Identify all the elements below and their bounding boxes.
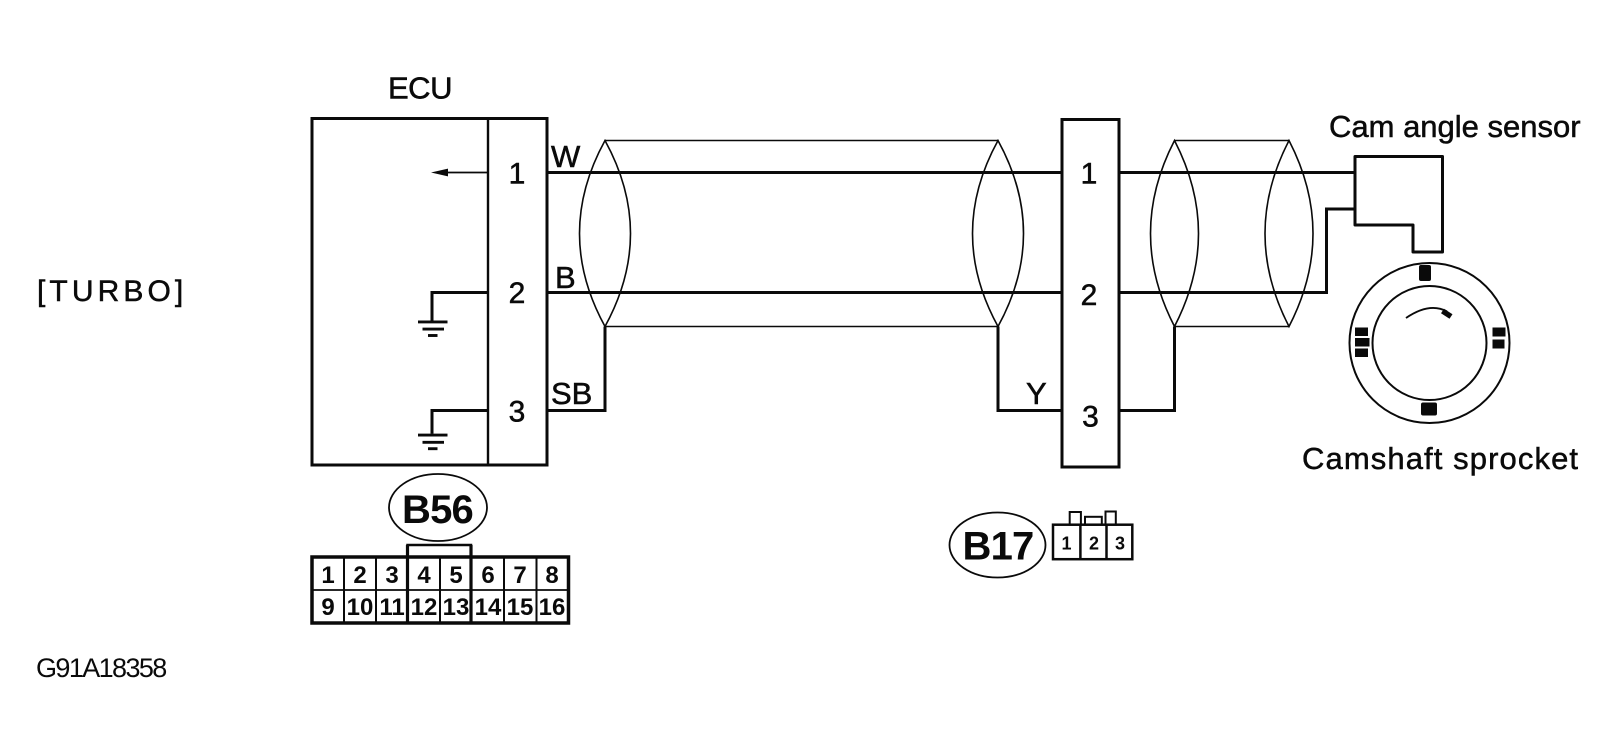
svg-text:14: 14 xyxy=(475,594,502,621)
cam angle sensor body xyxy=(1355,157,1443,253)
svg-text:1: 1 xyxy=(1081,158,1098,191)
ground wire pin 2 xyxy=(432,293,488,321)
column dividers xyxy=(344,557,537,623)
wire W: ECU pin1 to connector xyxy=(547,171,1062,174)
svg-text:1: 1 xyxy=(1061,534,1071,554)
B56 pin numbers row 1 xyxy=(321,562,558,589)
ECU connector divider xyxy=(487,119,489,466)
svg-text:13: 13 xyxy=(443,594,470,621)
B17 cell numbers xyxy=(1061,534,1125,554)
svg-text:9: 9 xyxy=(321,594,334,621)
shield cylinder 2 top line xyxy=(1175,140,1290,142)
svg-text:3: 3 xyxy=(385,562,398,589)
wire pin3 to shield 2 xyxy=(1119,327,1175,411)
sprocket marks right xyxy=(1493,328,1506,337)
B17 connector tabs xyxy=(1070,512,1081,525)
ground symbol pin 3 xyxy=(418,435,448,449)
connector B17 inline box xyxy=(1062,120,1119,468)
svg-text:1: 1 xyxy=(321,562,334,589)
connector label B17 ellipse xyxy=(950,513,1046,578)
wire pin1 to sensor xyxy=(1119,171,1355,174)
shield cable 1 bottom line xyxy=(605,326,998,328)
svg-text:8: 8 xyxy=(545,562,558,589)
sprocket marks left xyxy=(1355,328,1368,337)
ground symbol pin 2 xyxy=(418,322,448,336)
svg-text:B: B xyxy=(555,260,576,295)
shield cylinder 2 bottom line xyxy=(1175,326,1290,328)
B56 pin numbers row 2 xyxy=(321,594,565,621)
row divider xyxy=(312,589,569,591)
svg-text:B17: B17 xyxy=(963,525,1034,569)
B56 connector tab xyxy=(408,545,472,557)
svg-text:2: 2 xyxy=(353,562,366,589)
svg-text:3: 3 xyxy=(1115,534,1125,554)
ECU box xyxy=(312,119,547,466)
shield cable 1 top line xyxy=(605,140,998,142)
wire Y: shield to connector B17 xyxy=(998,327,1062,411)
svg-text:7: 7 xyxy=(513,562,526,589)
svg-text:11: 11 xyxy=(379,594,404,621)
svg-text:4: 4 xyxy=(417,562,431,589)
connector label B56 ellipse xyxy=(389,474,487,541)
svg-text:W: W xyxy=(551,139,581,174)
wire pin2 to sensor xyxy=(1119,209,1355,293)
svg-text:3: 3 xyxy=(509,396,526,429)
svg-text:Y: Y xyxy=(1026,376,1047,411)
B17 connector box xyxy=(1053,525,1132,560)
shield lens left (cable 1) xyxy=(580,141,631,327)
svg-text:Camshaft sprocket: Camshaft sprocket xyxy=(1302,441,1579,476)
svg-text:16: 16 xyxy=(539,594,566,621)
svg-text:1: 1 xyxy=(509,158,526,191)
camshaft sprocket outer circle xyxy=(1350,263,1510,423)
camshaft sprocket inner circle xyxy=(1373,286,1487,400)
svg-text:6: 6 xyxy=(481,562,494,589)
ground wire pin 3 xyxy=(432,411,488,434)
svg-text:SB: SB xyxy=(551,376,592,411)
svg-text:B56: B56 xyxy=(402,488,473,532)
svg-text:5: 5 xyxy=(449,562,462,589)
svg-text:3: 3 xyxy=(1082,401,1099,434)
shield lens right (cable 1) xyxy=(973,141,1024,327)
svg-text:Cam angle sensor: Cam angle sensor xyxy=(1329,109,1581,144)
svg-text:G91A18358: G91A18358 xyxy=(36,653,166,683)
sprocket mark bottom xyxy=(1421,403,1437,416)
svg-text:12: 12 xyxy=(411,594,438,621)
arrow into ECU pin 1 xyxy=(436,172,488,174)
svg-text:2: 2 xyxy=(509,277,526,310)
rotation arrow xyxy=(1406,308,1447,318)
shield lens right (cylinder 2) xyxy=(1265,141,1313,327)
B56 connector grid xyxy=(312,557,569,623)
wire SB: ECU pin3 to shield xyxy=(547,327,605,411)
svg-text:15: 15 xyxy=(507,594,534,621)
wire B: ECU pin2 to connector xyxy=(547,291,1062,294)
shield lens left (cylinder 2) xyxy=(1151,141,1199,327)
svg-text:[TURBO]: [TURBO] xyxy=(37,275,187,308)
svg-text:ECU: ECU xyxy=(388,71,452,106)
sprocket mark top xyxy=(1419,265,1431,281)
thick dividers at tab columns xyxy=(406,545,409,623)
svg-text:2: 2 xyxy=(1081,279,1098,312)
svg-text:2: 2 xyxy=(1089,534,1099,554)
svg-text:10: 10 xyxy=(347,594,374,621)
